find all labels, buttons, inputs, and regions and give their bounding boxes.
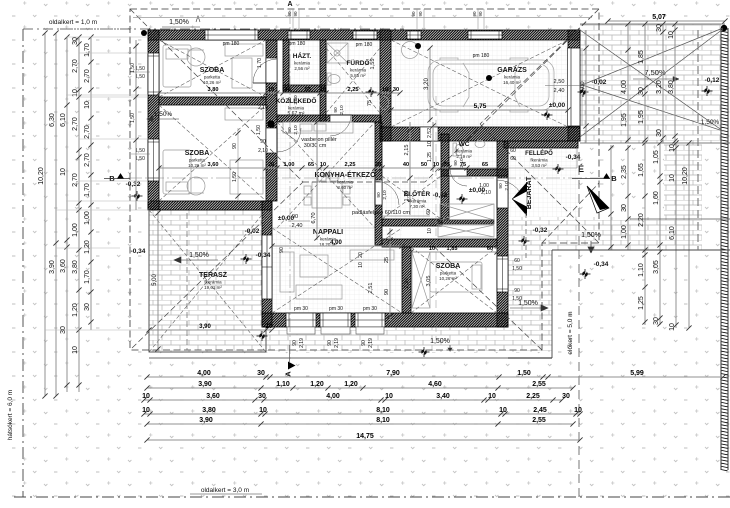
svg-text:10: 10 — [268, 87, 274, 93]
bedroom2 bed — [163, 150, 191, 194]
wall: pantry south wall — [283, 85, 326, 92]
svg-text:1,50: 1,50 — [256, 125, 262, 135]
svg-text:1,00: 1,00 — [621, 225, 628, 239]
svg-text:10,20: 10,20 — [38, 167, 45, 185]
svg-text:kerámia: kerámia — [504, 75, 521, 80]
svg-text:10: 10 — [358, 262, 364, 268]
property line left — [22, 29, 24, 497]
svg-text:2,10: 2,10 — [258, 105, 268, 111]
door gap garage-wc lobby — [420, 127, 438, 141]
ceiling diagonals bedroom1 — [159, 40, 266, 97]
wall: entry step north wall — [504, 141, 578, 148]
svg-text:10: 10 — [266, 324, 273, 330]
svg-text:kerámia: kerámia — [288, 106, 305, 111]
entrance walk paving — [552, 217, 702, 250]
bedroom1 armchair — [187, 48, 205, 66]
garage car — [428, 58, 554, 112]
svg-text:2,70: 2,70 — [72, 173, 79, 187]
svg-text:3,80: 3,80 — [208, 87, 219, 93]
bedroom3 bed — [430, 262, 482, 292]
svg-text:B: B — [611, 174, 617, 183]
svg-text:3,20: 3,20 — [424, 78, 430, 90]
svg-text:-0,32: -0,32 — [533, 227, 548, 234]
right horizontal line upper — [580, 142, 730, 144]
wc toilet — [455, 145, 463, 156]
left dim col inner chain — [90, 37, 92, 330]
svg-text:10: 10 — [60, 168, 67, 176]
svg-text:2,10: 2,10 — [293, 125, 299, 135]
svg-text:90: 90 — [287, 11, 292, 17]
svg-text:FÜRDŐ: FÜRDŐ — [346, 58, 369, 67]
svg-text:1,50: 1,50 — [512, 296, 522, 302]
wall: garage south wall — [380, 127, 580, 141]
tiled floor kitchen-dining — [277, 122, 375, 228]
svg-text:2,40: 2,40 — [554, 88, 565, 94]
svg-text:●kerámia: ●kerámia — [408, 199, 427, 204]
svg-text:2,19: 2,19 — [368, 338, 374, 348]
driveway dim col 3,80 — [674, 24, 676, 143]
property line bottom — [14, 496, 730, 498]
bedroom3 dim row — [411, 251, 497, 253]
dimension row 1 bottom — [147, 376, 723, 378]
svg-text:1,50: 1,50 — [135, 66, 145, 72]
svg-text:10: 10 — [499, 407, 507, 414]
hall attic stair closet — [440, 204, 494, 220]
svg-text:2,15: 2,15 — [404, 145, 410, 156]
svg-text:85: 85 — [305, 87, 311, 93]
svg-text:2,20: 2,20 — [638, 213, 645, 227]
svg-text:-0,12: -0,12 — [705, 77, 720, 84]
tiled floor living room — [272, 228, 402, 313]
svg-text:pm 30: pm 30 — [329, 306, 343, 312]
svg-text:10,26 m²: 10,26 m² — [203, 80, 221, 85]
svg-text:90: 90 — [327, 340, 333, 346]
living room tv shelf — [350, 250, 394, 260]
svg-text:25: 25 — [384, 257, 390, 263]
tiled floor pantry — [283, 40, 320, 85]
tiled floor entry walk — [508, 148, 578, 217]
svg-text:3,90: 3,90 — [49, 260, 56, 274]
garage center dot — [486, 75, 492, 81]
top window projection ticks — [293, 9, 484, 30]
svg-text:2,10: 2,10 — [504, 181, 510, 191]
wc basin — [475, 141, 485, 148]
svg-text:5,99: 5,99 — [630, 370, 644, 377]
svg-text:hátsókert = 6,0 m: hátsókert = 6,0 m — [7, 390, 14, 440]
svg-text:10: 10 — [320, 162, 326, 168]
dashed eave line entrance — [525, 213, 527, 260]
svg-text:fkerámia: fkerámia — [204, 280, 222, 285]
svg-text:fkerámia: fkerámia — [530, 158, 548, 163]
wall: bedroom corridor wall — [266, 40, 277, 201]
door: wc door — [450, 168, 467, 170]
wall: east exterior — [497, 141, 508, 327]
svg-text:10: 10 — [427, 228, 433, 234]
svg-text:10: 10 — [668, 31, 675, 39]
svg-text:8,60 m²: 8,60 m² — [337, 185, 353, 190]
ceiling diagonals bedroom2 — [159, 105, 266, 201]
svg-text:pm 30: pm 30 — [294, 306, 308, 312]
svg-text:2,35: 2,35 — [621, 165, 628, 179]
svg-text:padlásfeljáró 60/110 cm: padlásfeljáró 60/110 cm — [352, 210, 410, 216]
svg-text:10: 10 — [429, 246, 435, 252]
wall: wc west wall — [441, 134, 449, 219]
svg-text:1,95: 1,95 — [638, 110, 645, 124]
kitchen vertical dims — [316, 122, 318, 240]
right dim col 2,35 chain — [627, 145, 629, 250]
svg-text:10,26 m²: 10,26 m² — [188, 163, 206, 168]
garage boiler circle — [402, 42, 419, 59]
svg-text:10: 10 — [574, 407, 582, 414]
svg-text:50: 50 — [421, 162, 427, 168]
svg-text:90: 90 — [292, 214, 298, 220]
svg-text:parketta: parketta — [189, 158, 206, 163]
property line top (oldalkert) — [23, 28, 404, 30]
bedroom2 wardrobe — [225, 108, 263, 120]
driveway top edge — [580, 23, 725, 25]
svg-text:2,70: 2,70 — [84, 125, 91, 139]
svg-text:90: 90 — [260, 96, 266, 102]
interior dim row bedrooms top — [159, 92, 400, 94]
fellepo edge lines — [508, 148, 577, 168]
svg-text:oldalkert = 3,0 m: oldalkert = 3,0 m — [201, 487, 249, 494]
right horizontal line mid — [630, 218, 730, 220]
top dim 5,07 — [608, 20, 725, 22]
svg-text:2,51: 2,51 — [404, 278, 410, 289]
svg-text:3,20: 3,20 — [656, 80, 663, 94]
entrance arrow — [512, 182, 527, 216]
svg-text:65: 65 — [308, 162, 314, 168]
svg-text:-0,02: -0,02 — [433, 192, 448, 199]
garage corner dot — [415, 43, 421, 49]
wall: west exterior — [148, 30, 159, 210]
garage gate opening — [568, 48, 580, 126]
south walkway paving — [266, 327, 540, 352]
svg-text:2,40: 2,40 — [292, 223, 303, 229]
svg-text:parketta: parketta — [440, 271, 457, 276]
svg-text:-0,34: -0,34 — [131, 248, 146, 255]
svg-text:90: 90 — [376, 192, 382, 198]
door gap kitchen-hall — [375, 180, 382, 205]
svg-text:SZOBA: SZOBA — [200, 67, 225, 74]
svg-text:10: 10 — [142, 407, 150, 414]
right dim col 1,65/2,20 — [644, 143, 646, 325]
svg-text:SZOBA: SZOBA — [185, 150, 210, 157]
wall: kitchen-hall wall — [375, 122, 382, 245]
svg-text:8,10: 8,10 — [376, 407, 390, 414]
svg-text:90: 90 — [411, 11, 416, 17]
living room sofa — [280, 252, 294, 292]
svg-text:30: 30 — [562, 393, 570, 400]
garage vertical dim 3,20 — [429, 48, 431, 122]
svg-text:30: 30 — [656, 24, 663, 32]
svg-text:10,20: 10,20 — [682, 167, 689, 185]
left dim col 6,10/3,60 — [66, 37, 68, 392]
svg-text:-0,34: -0,34 — [256, 252, 271, 259]
terrace sliding door — [262, 235, 272, 299]
svg-text:2,19: 2,19 — [299, 338, 305, 348]
svg-text:1,70: 1,70 — [84, 270, 91, 284]
svg-text:30: 30 — [656, 129, 663, 137]
svg-text:90: 90 — [472, 11, 477, 17]
svg-text:30: 30 — [621, 204, 628, 212]
ceiling diagonals hall — [382, 176, 441, 219]
svg-text:10: 10 — [669, 144, 676, 152]
svg-text:1,00: 1,00 — [72, 223, 79, 237]
svg-text:60: 60 — [487, 246, 493, 252]
right dim col 1,05/1,60/3,05 — [659, 143, 661, 325]
svg-text:2,70: 2,70 — [84, 69, 91, 83]
svg-text:A: A — [284, 371, 293, 377]
svg-text:60: 60 — [510, 148, 516, 154]
bathroom basin — [380, 97, 389, 110]
svg-text:KONYHA-ÉTKEZŐ: KONYHA-ÉTKEZŐ — [314, 170, 376, 179]
svg-text:2,10: 2,10 — [382, 190, 388, 200]
window: bedroom3 east window — [497, 256, 508, 292]
ceiling diagonals kitchen — [277, 122, 375, 228]
dimension row 3 bottom — [144, 399, 562, 401]
svg-text:4,00: 4,00 — [330, 240, 342, 246]
tiled floor garage — [391, 40, 568, 127]
door gap bathroom — [330, 115, 352, 122]
window: living room window 3 — [355, 313, 385, 327]
svg-text:2,25: 2,25 — [348, 87, 359, 93]
svg-text:10: 10 — [142, 393, 150, 400]
interior dim row bedroom2 — [159, 167, 497, 169]
ceiling diagonals bathroom — [326, 48, 380, 113]
svg-text:1,00: 1,00 — [284, 162, 295, 168]
svg-text:3,90: 3,90 — [199, 324, 211, 330]
svg-text:2,45: 2,45 — [533, 407, 547, 414]
svg-text:4,00: 4,00 — [580, 81, 586, 92]
svg-text:60: 60 — [426, 209, 432, 215]
svg-text:3,53 m²: 3,53 m² — [531, 163, 547, 168]
svg-text:1,95: 1,95 — [621, 113, 628, 127]
svg-text:90: 90 — [333, 107, 339, 113]
svg-text:1,50%: 1,50% — [189, 252, 209, 259]
dimension row 2 bottom — [147, 387, 573, 389]
door: hall door — [374, 181, 376, 205]
svg-text:90: 90 — [453, 160, 459, 166]
window: bathroom window — [353, 31, 377, 39]
svg-text:1,20: 1,20 — [310, 381, 324, 388]
svg-text:14,75: 14,75 — [356, 433, 374, 440]
setback line elokert — [578, 152, 580, 497]
svg-text:oldalkert = 1,0 m: oldalkert = 1,0 m — [49, 19, 97, 26]
door gap bedroom1 — [266, 58, 277, 83]
svg-text:2,50: 2,50 — [554, 79, 565, 85]
closet divider hatched — [438, 220, 494, 224]
svg-text:1,10: 1,10 — [638, 263, 645, 277]
svg-text:4,60: 4,60 — [428, 381, 442, 388]
svg-text:2,10: 2,10 — [293, 95, 299, 105]
svg-text:1,50: 1,50 — [517, 370, 531, 377]
svg-text:90: 90 — [361, 340, 367, 346]
tiled floor corridor — [277, 90, 326, 115]
svg-text:1,70: 1,70 — [84, 43, 91, 57]
svg-text:1,70: 1,70 — [84, 183, 91, 197]
svg-text:3,05: 3,05 — [426, 276, 432, 287]
driveway dim col 3,20 — [662, 24, 664, 143]
svg-text:65: 65 — [482, 162, 488, 168]
kitchen-living divider line — [272, 227, 375, 229]
walkway boundary lines — [508, 250, 730, 358]
wall: west wall of living room — [262, 201, 272, 327]
roof hip south-east — [425, 183, 599, 350]
roof ridge — [303, 181, 425, 183]
svg-text:6,10: 6,10 — [60, 113, 67, 127]
ceiling diagonals terrace — [149, 210, 266, 352]
svg-text:10: 10 — [669, 174, 676, 182]
svg-text:30: 30 — [257, 370, 265, 377]
svg-text:3,60: 3,60 — [60, 259, 67, 273]
svg-text:30: 30 — [653, 317, 660, 325]
bedroom2 inner vdim — [237, 128, 239, 200]
dimension row 6 bottom total — [147, 439, 580, 441]
svg-text:5,07: 5,07 — [652, 14, 666, 21]
svg-text:2,10: 2,10 — [481, 190, 491, 196]
wall: bedroom3 west wall — [402, 247, 411, 313]
wall: pantry west wall — [283, 40, 289, 90]
svg-text:1,55: 1,55 — [370, 59, 376, 70]
tiled floor hall — [382, 176, 441, 219]
svg-text:7,90: 7,90 — [386, 370, 400, 377]
svg-text:4,00: 4,00 — [197, 370, 211, 377]
svg-text:1,50: 1,50 — [130, 113, 136, 123]
roof eaves outline — [130, 9, 599, 350]
svg-text:kerámia: kerámia — [337, 180, 354, 185]
wall: north exterior — [148, 30, 580, 40]
door: bedroom2 door — [276, 128, 278, 152]
nappali dim row — [272, 245, 402, 247]
svg-text:2,70: 2,70 — [72, 59, 79, 73]
svg-text:1,50: 1,50 — [135, 74, 145, 80]
svg-text:2,10: 2,10 — [339, 105, 345, 115]
east paving strip — [664, 143, 702, 249]
wall: garage west wall — [380, 30, 391, 141]
svg-text:előkert = 5,0 m: előkert = 5,0 m — [567, 311, 574, 354]
svg-text:1,25: 1,25 — [638, 296, 645, 310]
svg-text:75: 75 — [285, 87, 291, 93]
svg-text:30: 30 — [258, 393, 266, 400]
svg-text:-0,34: -0,34 — [566, 154, 581, 161]
svg-text:2,19: 2,19 — [334, 338, 340, 348]
window: living room window 1 — [286, 313, 316, 327]
svg-text:1,50: 1,50 — [135, 148, 145, 154]
pillar dot — [267, 120, 274, 127]
wall: hall south wall — [382, 219, 442, 226]
svg-text:3,40: 3,40 — [436, 393, 450, 400]
driveway paving before garage — [580, 24, 721, 143]
svg-text:20: 20 — [268, 162, 274, 168]
svg-text:10: 10 — [669, 323, 676, 331]
svg-text:3,05: 3,05 — [653, 260, 660, 274]
svg-text:1,10: 1,10 — [276, 381, 290, 388]
svg-text:30/30 cm: 30/30 cm — [304, 143, 327, 149]
svg-text:GARÁZS: GARÁZS — [497, 65, 527, 74]
section line A-A — [289, 10, 291, 360]
bathroom shower — [327, 43, 348, 63]
svg-text:6,10: 6,10 — [669, 226, 676, 240]
top eaves line — [133, 17, 592, 19]
dining table and chairs — [312, 182, 342, 208]
svg-text:kerámia: kerámia — [294, 61, 311, 66]
bathroom toilet — [328, 75, 340, 84]
ceiling diagonals bedroom3 — [411, 247, 497, 313]
svg-text:90: 90 — [287, 127, 293, 133]
svg-text:2,25: 2,25 — [526, 393, 540, 400]
svg-text:3,60: 3,60 — [206, 393, 220, 400]
svg-text:30: 30 — [72, 37, 79, 45]
wall: wall between bedrooms — [159, 97, 266, 105]
terrace dims — [149, 329, 272, 331]
svg-text:A: A — [287, 1, 292, 8]
svg-text:WC: WC — [459, 141, 470, 148]
svg-text:3,80: 3,80 — [668, 80, 675, 94]
svg-text:±0,00: ±0,00 — [549, 102, 566, 109]
left dim col room chain — [78, 37, 80, 392]
wall: south wall of west wing — [148, 201, 272, 210]
svg-text:1,25: 1,25 — [427, 152, 433, 162]
svg-text:3,80: 3,80 — [72, 260, 79, 274]
door gap bedroom2 — [266, 128, 277, 153]
section line B-B — [128, 177, 604, 179]
svg-text:19,61 m²: 19,61 m² — [204, 285, 222, 290]
door gap wc — [449, 169, 467, 176]
svg-text:10: 10 — [72, 89, 79, 97]
svg-text:-0,32: -0,32 — [126, 181, 141, 188]
house floor (white) — [148, 30, 580, 327]
svg-text:1,05: 1,05 — [653, 150, 660, 164]
svg-text:75: 75 — [367, 100, 373, 106]
terrace paving (TERASZ) — [149, 210, 266, 352]
interior dim row garage — [391, 109, 568, 111]
svg-text:TERASZ: TERASZ — [199, 272, 228, 279]
projection dashed line hall — [435, 96, 437, 340]
svg-text:60: 60 — [510, 156, 516, 162]
svg-text:1,50%: 1,50% — [154, 111, 173, 118]
svg-text:90: 90 — [514, 288, 520, 294]
svg-text:3,90: 3,90 — [199, 417, 213, 424]
dashed boundary line right — [697, 30, 699, 250]
svg-text:30: 30 — [393, 87, 399, 93]
plan corner dot nw — [141, 30, 147, 36]
svg-text:6,70: 6,70 — [311, 212, 317, 223]
svg-text:pm 180: pm 180 — [223, 41, 240, 47]
svg-text:2,19 m²: 2,19 m² — [456, 154, 472, 159]
svg-text:10,26 m²: 10,26 m² — [439, 276, 457, 281]
window: garage window 1 — [407, 31, 421, 39]
svg-text:pm 30: pm 30 — [363, 306, 377, 312]
door: bathroom door — [330, 114, 351, 116]
bedroom2 armchair — [187, 177, 205, 195]
svg-text:10: 10 — [488, 393, 496, 400]
svg-text:3,80: 3,80 — [202, 407, 216, 414]
svg-text:2,56 m²: 2,56 m² — [294, 66, 310, 71]
svg-text:5,85 m²: 5,85 m² — [350, 73, 366, 78]
svg-text:90: 90 — [418, 11, 423, 17]
door: bedroom1 door — [253, 82, 277, 84]
svg-text:10: 10 — [320, 87, 326, 93]
svg-text:90: 90 — [498, 183, 504, 189]
svg-text:-0,34: -0,34 — [594, 261, 609, 268]
svg-text:FELLÉPŐ: FELLÉPŐ — [525, 149, 553, 157]
svg-text:30: 30 — [385, 87, 391, 93]
right dim total 10,20 — [688, 143, 690, 328]
left dim col 6,30/3,90 — [55, 33, 57, 396]
svg-text:1,85: 1,85 — [447, 246, 458, 252]
wall: wc south wall — [441, 169, 508, 176]
